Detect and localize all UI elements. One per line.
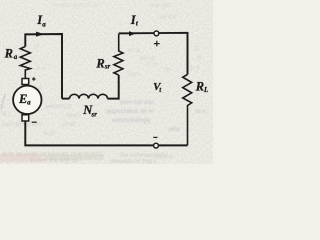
svg-text:R: R (95, 57, 104, 71)
svg-text:commandingly: commandingly (112, 118, 151, 124)
svg-text:R: R (4, 47, 13, 61)
svg-text:R: R (195, 80, 204, 94)
svg-text:L: L (203, 86, 208, 94)
svg-text:in o: in o (36, 66, 46, 72)
svg-text:a: a (42, 21, 46, 29)
svg-text:le n: le n (196, 109, 206, 115)
svg-text:mor ent: mor ent (150, 3, 171, 9)
svg-text:sr: sr (104, 63, 111, 71)
svg-text:a: a (14, 53, 18, 61)
svg-text:la t: la t (2, 112, 10, 118)
svg-text:card B) ha ther: card B) ha ther (2, 122, 42, 128)
svg-text:an d: an d (128, 48, 140, 54)
svg-text:mutatis and, 4.30: mutatis and, 4.30 (52, 3, 99, 9)
svg-text:athe: athe (168, 127, 180, 133)
svg-text:to li: to li (190, 66, 199, 72)
svg-text:a: a (27, 99, 31, 107)
svg-text:rd: rd (196, 56, 201, 62)
svg-text:E: E (18, 92, 27, 106)
svg-text:ch: ch (164, 68, 170, 74)
svg-text:sr: sr (91, 111, 98, 119)
svg-text:st: st (194, 46, 199, 52)
svg-text:With bar equ: With bar equ (120, 100, 154, 106)
svg-text:ol m: ol m (146, 62, 157, 68)
svg-text:over t: over t (66, 113, 81, 119)
svg-text:onwards he that t: onwards he that t (110, 159, 156, 164)
svg-text:me t: me t (128, 72, 140, 78)
svg-text:velocity d: velocity d (46, 104, 71, 110)
svg-text:so le a: so le a (155, 154, 173, 160)
svg-text:e so: e so (44, 131, 56, 137)
svg-text:appreciated, tie m: appreciated, tie m (106, 109, 154, 115)
svg-text:el: el (34, 44, 39, 50)
svg-text:on th: on th (62, 122, 75, 128)
svg-text:lat me: lat me (160, 15, 177, 21)
